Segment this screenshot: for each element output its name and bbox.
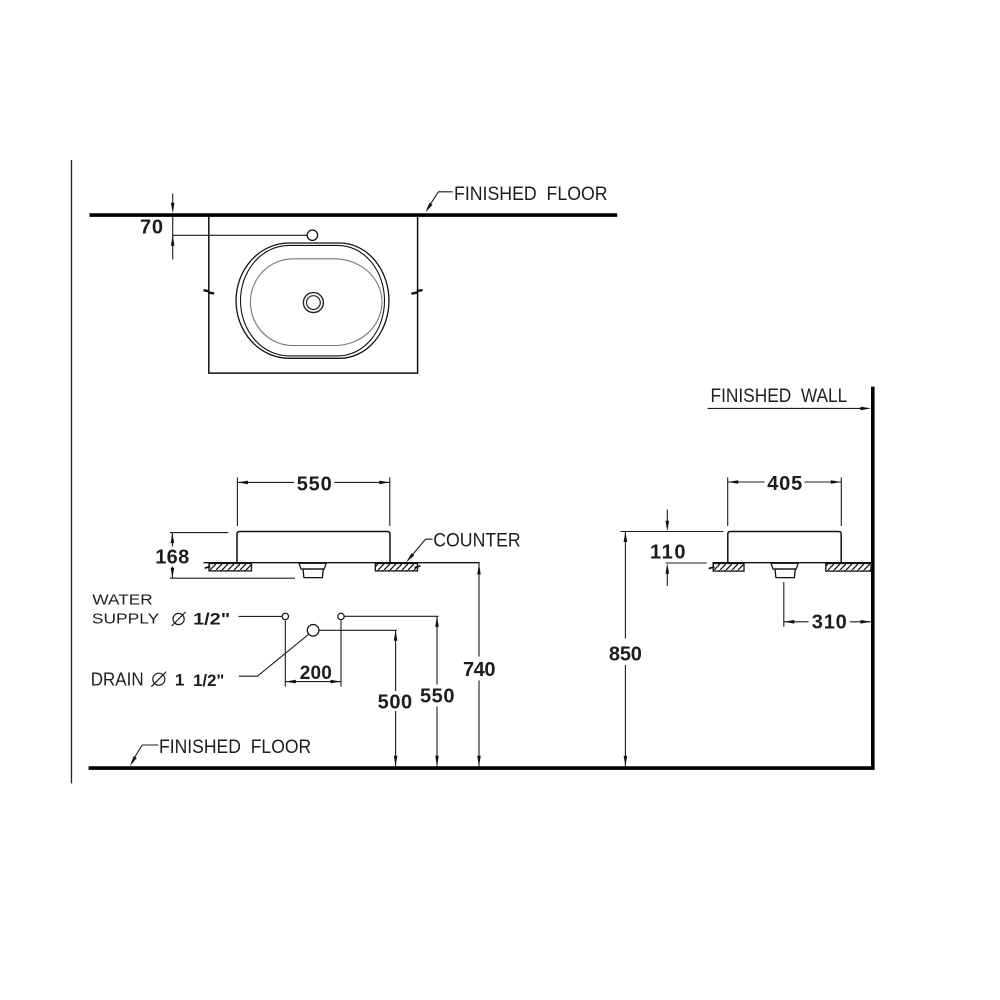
leader finished floor top — [427, 192, 453, 209]
svg-text:DRAIN: DRAIN — [91, 669, 144, 689]
counter hatch right (front) — [375, 564, 417, 571]
diameter symbol 1/2 — [173, 613, 184, 624]
svg-text:405: 405 — [767, 473, 802, 495]
dim 110 lower extension line — [666, 562, 707, 564]
basin inner bowl (plan) — [250, 259, 382, 346]
leader counter — [408, 539, 433, 560]
counter hatch left tick (side) — [709, 567, 715, 569]
basin body (front view) — [237, 532, 390, 563]
counter hatch right (side) — [826, 564, 871, 572]
dim 500 vertical line — [395, 630, 397, 691]
dim 110 upper arrow — [666, 510, 668, 522]
counter hatch left (side) — [713, 564, 744, 572]
dim 550 line (front) — [237, 481, 294, 483]
dim 168 top extension line — [170, 532, 229, 534]
dim 70 vertical line below wall — [172, 217, 174, 260]
break mark left edge — [204, 290, 215, 293]
svg-text:70: 70 — [140, 217, 163, 239]
dim 405 line — [728, 481, 765, 483]
dim 168 vertical line — [171, 533, 173, 547]
drain fitting body (side) — [775, 569, 795, 578]
drain fitting flange (side) — [771, 563, 798, 569]
water supply circle left — [282, 613, 288, 619]
dim 110 lower arrow — [666, 574, 668, 587]
basin body (side view) — [728, 532, 841, 563]
svg-text:740: 740 — [463, 659, 496, 681]
diameter symbol drain — [153, 673, 165, 685]
drain leader — [239, 635, 308, 677]
faucet hole circle (plan) — [307, 230, 317, 240]
counter top line (front view) — [204, 562, 480, 564]
dim 310 line — [784, 621, 809, 623]
dim 200 extension lines — [284, 620, 286, 686]
svg-text:850: 850 — [609, 644, 642, 666]
dim 740 vertical line — [478, 563, 480, 657]
dim 200 line — [285, 681, 341, 683]
svg-text:FINISHED FLOOR: FINISHED FLOOR — [159, 737, 311, 758]
finished floor thick line (bottom) — [89, 766, 875, 770]
svg-text:110: 110 — [650, 541, 686, 563]
dim 168 bottom extension line — [170, 577, 295, 579]
svg-text:550: 550 — [297, 473, 332, 495]
svg-text:FINISHED FLOOR: FINISHED FLOOR — [454, 184, 608, 205]
counter top line (side view) — [713, 562, 872, 564]
dim 70 arrow above wall — [172, 194, 174, 204]
svg-text:1/2": 1/2" — [193, 671, 224, 690]
finished wall underline leader — [708, 407, 863, 409]
drain outer circle (plan) — [303, 293, 323, 313]
counter hatch left (front) — [209, 564, 252, 571]
dim 110 / 850 top extension line — [621, 531, 724, 533]
svg-text:550: 550 — [420, 685, 455, 707]
svg-text:WATER: WATER — [92, 592, 152, 609]
basin outer rim (plan) — [236, 243, 389, 358]
svg-text:1: 1 — [175, 670, 184, 689]
drain circle (front elevation) — [307, 625, 319, 637]
svg-text:310: 310 — [812, 611, 847, 633]
svg-text:500: 500 — [378, 691, 413, 713]
svg-text:FINISHED WALL: FINISHED WALL — [711, 386, 848, 407]
drain fitting flange (front) — [299, 563, 326, 569]
drain fitting body (front) — [303, 569, 323, 578]
dim 405 extension lines — [727, 478, 729, 527]
dim 550 extension lines (front) — [236, 478, 238, 527]
break mark right edge — [411, 290, 422, 294]
svg-text:COUNTER: COUNTER — [433, 531, 520, 552]
counter rectangle (plan view) — [209, 217, 418, 373]
counter hatch right tick — [415, 566, 421, 568]
leader finished floor bottom — [132, 745, 159, 762]
drain inner circle (plan) — [307, 296, 321, 310]
counter hatch left tick — [205, 566, 211, 568]
drain extension line (side) — [783, 582, 785, 627]
basin outer rim inner line (plan) — [240, 245, 384, 356]
line from right supply circle to 550 dim — [344, 615, 438, 617]
dim 850 vertical line — [624, 532, 626, 639]
svg-text:1/2": 1/2" — [193, 609, 230, 628]
svg-text:168: 168 — [155, 547, 189, 569]
line from drain circle to 500 dim — [319, 629, 397, 631]
left border line — [71, 160, 73, 784]
finished floor thick line (plan view) — [90, 213, 618, 217]
svg-text:SUPPLY: SUPPLY — [92, 611, 159, 628]
finished wall thick line — [871, 387, 875, 770]
water supply circle right — [338, 613, 344, 619]
dim 550 right vertical line — [436, 616, 438, 684]
dim 70 horizontal line to faucet — [173, 234, 307, 236]
water supply leader line — [239, 615, 282, 617]
svg-text:200: 200 — [300, 663, 332, 684]
